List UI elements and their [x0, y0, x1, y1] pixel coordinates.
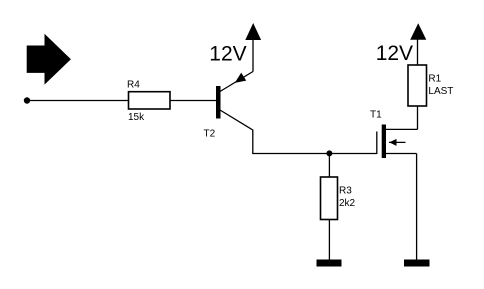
- svg-text:R4: R4: [127, 80, 140, 91]
- svg-text:15k: 15k: [128, 112, 145, 123]
- svg-text:R1: R1: [428, 73, 441, 84]
- svg-text:12V: 12V: [376, 42, 413, 65]
- svg-text:T2: T2: [204, 129, 216, 140]
- svg-text:2k2: 2k2: [339, 198, 356, 209]
- svg-text:R3: R3: [339, 186, 352, 197]
- svg-text:T1: T1: [370, 109, 382, 120]
- svg-text:LAST: LAST: [428, 86, 453, 97]
- svg-text:12V: 12V: [209, 43, 246, 66]
